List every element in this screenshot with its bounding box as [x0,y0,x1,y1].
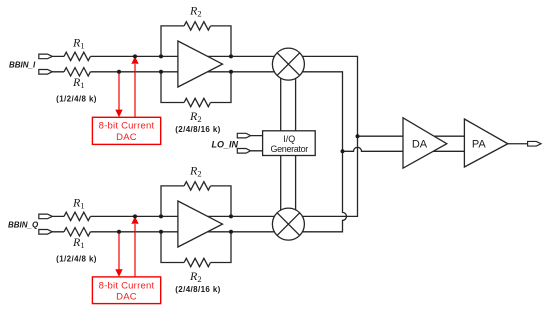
svg-text:LO_IN: LO_IN [212,139,239,149]
svg-text:BBIN_I: BBIN_I [9,60,36,69]
svg-text:DAC: DAC [116,291,137,302]
svg-text:DAC: DAC [116,132,137,143]
svg-text:(2/4/8/16 k): (2/4/8/16 k) [175,285,220,294]
svg-text:DA: DA [412,138,428,150]
svg-text:I/Q: I/Q [283,134,295,144]
svg-text:PA: PA [472,138,487,150]
svg-text:(1/2/4/8 k): (1/2/4/8 k) [56,254,97,263]
svg-text:Generator: Generator [271,144,309,154]
svg-text:(2/4/8/16 k): (2/4/8/16 k) [175,125,220,134]
svg-text:8-bit Current: 8-bit Current [99,280,155,291]
svg-text:(1/2/4/8 k): (1/2/4/8 k) [56,94,97,103]
svg-text:BBIN_Q: BBIN_Q [8,220,39,229]
svg-text:8-bit Current: 8-bit Current [99,121,155,132]
